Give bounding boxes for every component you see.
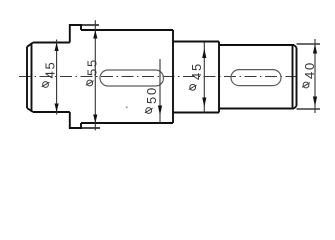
svg-text:50: 50 <box>144 86 159 104</box>
label dia40: diameter symbol <box>302 82 310 88</box>
keyway slot on dia-40 section <box>231 70 281 86</box>
shaft section 2 outline (dia 55 body) <box>81 30 173 123</box>
svg-text:45: 45 <box>189 62 204 80</box>
stray speck artifact <box>126 106 128 108</box>
arrow dia55 bottom <box>93 115 97 124</box>
arrow dia55 top <box>93 30 97 39</box>
dimension line dia40 <box>314 39 316 113</box>
arrow dia45-left bottom <box>55 104 59 113</box>
collar bottom edge extension line <box>81 127 100 129</box>
collar (flange) outline <box>70 25 81 128</box>
extension line dia40 top <box>297 43 321 45</box>
arrow dia45-right bottom <box>202 98 206 108</box>
arrow dia45-right top <box>202 49 206 59</box>
arrow dia45-left top <box>55 43 59 52</box>
label dia50: diameter symbol <box>145 108 153 114</box>
dimension line dia45 right <box>203 43 205 113</box>
shaft section 1 outline (left journal, dia 45) <box>27 43 70 113</box>
shaft section 4 outline (right end, dia 40) <box>219 45 297 109</box>
dimension line dia45 left <box>56 40 58 115</box>
arrow dia40 bottom <box>313 97 317 107</box>
extension line dia40 bottom <box>297 108 321 110</box>
dimension line dia55 <box>94 20 96 130</box>
label dia45 left: diameter symbol <box>42 82 50 88</box>
shaft section 3 outline (dia 45 journal) <box>173 42 219 113</box>
svg-text:45: 45 <box>43 60 58 78</box>
arrow dia40 top <box>313 44 317 53</box>
collar top edge extension line <box>81 24 99 26</box>
centerline (shaft axis, dash-dot) <box>19 76 297 78</box>
arrow dia50 bottom <box>158 106 162 116</box>
dimension line dia50 (keyway seat) <box>159 59 161 123</box>
svg-text:55: 55 <box>85 58 100 76</box>
svg-text:40: 40 <box>302 61 317 79</box>
keyway slot on dia-55 section <box>100 70 164 86</box>
label dia45 right: diameter symbol <box>189 84 197 90</box>
label dia55: diameter symbol <box>86 80 94 86</box>
